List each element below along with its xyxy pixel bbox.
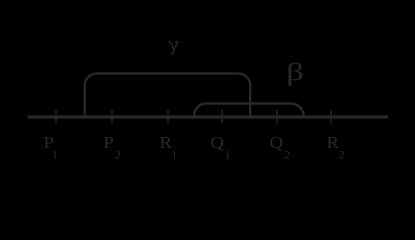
tick R1 xyxy=(167,110,169,123)
svg-text:Q1: Q1 xyxy=(211,133,231,162)
svg-text:P2: P2 xyxy=(104,133,122,162)
svg-text:Q2: Q2 xyxy=(270,133,291,162)
beta interval bracket xyxy=(194,104,304,117)
svg-text:R2: R2 xyxy=(327,133,345,162)
tick P1 xyxy=(55,110,57,123)
label Q1 xyxy=(211,133,231,162)
gamma interval bracket xyxy=(85,74,250,117)
svg-text:P1: P1 xyxy=(44,133,59,162)
svg-text:β: β xyxy=(286,58,304,86)
label beta xyxy=(286,58,304,86)
tick P2 xyxy=(111,110,113,123)
number line xyxy=(28,115,389,118)
label R2 xyxy=(327,133,345,162)
label P2 xyxy=(104,133,122,162)
tick Q2 xyxy=(276,110,278,123)
label R1 xyxy=(160,133,178,162)
label P1 xyxy=(44,133,59,162)
tick Q1 xyxy=(221,110,223,123)
tick R2 xyxy=(330,110,332,123)
svg-text:R1: R1 xyxy=(160,133,178,162)
label gamma xyxy=(169,41,178,54)
label Q2 xyxy=(270,133,291,162)
